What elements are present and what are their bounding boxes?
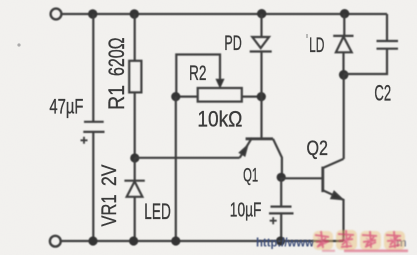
label Q2 bbox=[307, 137, 329, 160]
terminal top-left bbox=[51, 9, 62, 20]
watermark bbox=[256, 235, 407, 249]
node 10uF bottom bbox=[276, 236, 285, 245]
label PD bbox=[224, 32, 241, 55]
wire 47uF bottom lead bbox=[92, 132, 94, 241]
label LED bbox=[144, 199, 171, 224]
node bottom R2 bbox=[171, 236, 180, 245]
photodiode PD bbox=[250, 14, 272, 138]
node bottom 47uF bbox=[88, 236, 97, 245]
svg-text:Q1: Q1 bbox=[243, 166, 258, 187]
node top of R1 bbox=[130, 9, 139, 18]
transistor Q2 bbox=[323, 159, 344, 241]
label R1 620ohm (vertical) bbox=[104, 38, 129, 111]
wire R2 left to bottom rail bbox=[175, 97, 177, 241]
capacitor C 47uF bbox=[81, 122, 105, 144]
label R2 bbox=[189, 62, 207, 85]
svg-text:C2: C2 bbox=[374, 81, 391, 106]
laser diode LD bbox=[333, 14, 353, 75]
node top of 47uF bbox=[88, 9, 97, 18]
label Q1 bbox=[243, 166, 258, 187]
label 10kohm bbox=[197, 107, 242, 132]
terminal bottom-left bbox=[50, 236, 61, 247]
svg-text:620Ω: 620Ω bbox=[104, 38, 129, 77]
svg-text:LD: LD bbox=[309, 34, 324, 57]
transistor Q1 bbox=[240, 138, 282, 178]
potentiometer R2 bbox=[176, 55, 261, 102]
node top of LD bbox=[340, 9, 349, 18]
node bottom LED bbox=[129, 236, 138, 245]
wire Q1 base wire from LED node bbox=[135, 157, 240, 159]
svg-text:LED: LED bbox=[144, 199, 171, 224]
node R2 right bbox=[257, 92, 266, 101]
label LD bbox=[309, 34, 324, 57]
wire Q2 base wire bbox=[281, 177, 321, 179]
resistor R1 bbox=[129, 14, 141, 158]
svg-text:PD: PD bbox=[224, 32, 241, 55]
scan speck bbox=[17, 34, 308, 47]
svg-text:47µF: 47µF bbox=[49, 96, 83, 119]
svg-text:R1: R1 bbox=[104, 85, 129, 110]
wire bottom rail bbox=[61, 240, 344, 242]
svg-text:VR1: VR1 bbox=[98, 195, 121, 227]
node R2 left bbox=[171, 92, 180, 101]
svg-text:10kΩ: 10kΩ bbox=[197, 107, 242, 132]
wire 47uF top lead bbox=[92, 14, 94, 122]
label 47uF bbox=[49, 96, 83, 119]
label VR1 2V (vertical) bbox=[98, 165, 121, 227]
diode VR1 LED bbox=[124, 158, 144, 241]
label C2 bbox=[374, 81, 391, 106]
svg-text:2V: 2V bbox=[98, 165, 121, 187]
node top of PD bbox=[257, 9, 266, 18]
svg-text:Q2: Q2 bbox=[307, 137, 329, 160]
svg-text:http://www: http://www bbox=[256, 235, 315, 249]
wire LD node to Q2 collector bbox=[343, 75, 345, 159]
capacitor C2 bbox=[344, 14, 398, 74]
svg-text:R2: R2 bbox=[189, 62, 207, 85]
node R1/LED junction bbox=[130, 153, 139, 162]
node LD bottom / C2 bbox=[339, 70, 349, 80]
node Q1 collector / Q2 base / 10uF bbox=[277, 173, 286, 182]
wire top rail bbox=[62, 13, 388, 15]
capacitor 10uF bbox=[269, 177, 294, 241]
label 10uF bbox=[230, 199, 262, 221]
svg-text:10µF: 10µF bbox=[230, 199, 262, 221]
